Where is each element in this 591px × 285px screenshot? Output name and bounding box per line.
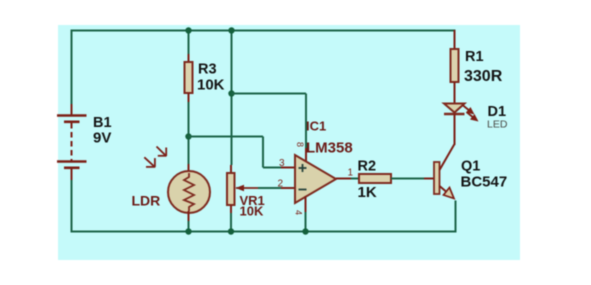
LED D1 cathode bar xyxy=(444,113,465,115)
pin: R3 top pin xyxy=(188,54,190,63)
transistor Q1 emitter lead xyxy=(440,186,450,194)
op-amp minus sign xyxy=(299,189,307,191)
wire: wiper to IC1 pin 2 xyxy=(258,187,282,189)
wire: pin 4 to ground rail xyxy=(305,212,307,232)
wire: R3 bottom to node xyxy=(188,102,190,164)
wire: emitter drop to ground rail xyxy=(455,201,457,233)
pin: battery top pin stub xyxy=(71,104,73,115)
svg-text:R3: R3 xyxy=(198,62,217,78)
potentiometer VR1 wiper arrow xyxy=(236,185,259,191)
pin: IC1 pin 8 stub xyxy=(305,148,307,162)
wire: VR1 to ground rail xyxy=(230,213,232,232)
pin: Q1 base pin stub xyxy=(424,178,434,180)
pin: LDR bottom pin xyxy=(188,211,190,221)
pin: VR1 bottom pin xyxy=(230,205,232,213)
pin: IC1 pin 4 stub xyxy=(305,196,307,212)
svg-text:10K: 10K xyxy=(197,77,225,94)
node: R3/LDR junction xyxy=(185,133,191,139)
node: VR1 top rail junction xyxy=(228,27,234,33)
svg-text:8: 8 xyxy=(295,142,305,147)
LDR internal resistor zigzag xyxy=(184,173,194,211)
transistor Q1 collector lead xyxy=(440,144,455,170)
LED D1 triangle xyxy=(444,104,465,113)
resistor R1 xyxy=(451,49,459,82)
LED D1 emission arrow 2 xyxy=(467,112,479,122)
wire: bottom ground rail xyxy=(71,231,457,233)
wire: node to IC1 pin 3 (horizontal upper) xyxy=(189,136,264,138)
wire: IC1 pin 8 vertical xyxy=(305,94,307,149)
pin: IC1 pin 2 stub xyxy=(281,187,295,189)
svg-text:1: 1 xyxy=(348,168,354,179)
wire: R2 to Q1 base xyxy=(391,178,424,180)
wire: pin3 link horizontal xyxy=(263,167,282,169)
wire: left rail lower (battery - lead) xyxy=(71,180,73,232)
potentiometer VR1 body xyxy=(227,173,235,205)
pin: R3 bottom pin xyxy=(188,93,190,102)
wire: R3 branch top xyxy=(188,30,190,54)
svg-text:IC1: IC1 xyxy=(306,119,326,134)
pin: IC1 pin 3 stub xyxy=(281,167,295,169)
node: R3 top rail junction xyxy=(185,27,191,33)
LED D1 emission arrow 1 xyxy=(463,105,475,115)
svg-text:R1: R1 xyxy=(465,49,484,65)
LDR light arrow upper xyxy=(157,147,167,157)
pin: R1 top pin from rail xyxy=(454,30,456,50)
resistor R3 xyxy=(185,62,193,93)
svg-text:3: 3 xyxy=(279,158,285,169)
battery B1 xyxy=(57,116,87,168)
op-amp U1 triangle xyxy=(295,155,336,203)
op-amp plus sign xyxy=(299,164,307,172)
wire: VR1 branch from top rail xyxy=(231,30,233,165)
transistor Q1 emitter arrow xyxy=(444,188,455,199)
pin: LED cathode to Q1 collector xyxy=(454,114,456,145)
svg-text:10K: 10K xyxy=(240,204,264,219)
node: VR1 ground junction xyxy=(228,228,234,234)
pin: VR1 top pin xyxy=(230,165,232,174)
svg-text:LM358: LM358 xyxy=(306,140,353,157)
LDR body xyxy=(168,171,210,213)
wire: output to R2 xyxy=(351,178,360,180)
wire: LDR to ground rail xyxy=(188,221,190,232)
wire: top VCC rail xyxy=(71,30,456,32)
svg-text:9V: 9V xyxy=(93,130,111,147)
svg-text:4: 4 xyxy=(294,210,304,215)
node: IC1 ground junction xyxy=(302,228,308,234)
svg-text:BC547: BC547 xyxy=(461,174,508,191)
svg-text:R2: R2 xyxy=(358,159,377,175)
pin: LDR top pin xyxy=(188,164,190,173)
pin: R1 bottom to LED anode xyxy=(454,82,456,104)
svg-text:330R: 330R xyxy=(464,68,503,85)
schematic sheet background xyxy=(58,25,520,260)
svg-text:LED: LED xyxy=(487,119,508,131)
wire: junction to IC1 pin 8 horizontal xyxy=(232,93,307,95)
svg-text:Q1: Q1 xyxy=(461,159,480,175)
pin: battery bottom pin stub xyxy=(71,168,73,180)
node: VR1/op-amp supply junction xyxy=(228,90,234,96)
svg-text:2: 2 xyxy=(278,179,284,190)
node: LDR ground junction xyxy=(185,228,191,234)
wire: left rail upper (battery + lead) xyxy=(71,30,73,105)
pin: IC1 pin 1 output stub xyxy=(336,178,351,180)
wire: pin3 link vertical xyxy=(262,137,264,168)
transistor Q1 base bar xyxy=(434,162,440,194)
resistor R2 xyxy=(359,174,391,183)
LDR light arrow lower xyxy=(144,157,155,167)
svg-text:1K: 1K xyxy=(358,184,377,201)
svg-text:LDR: LDR xyxy=(132,193,161,209)
